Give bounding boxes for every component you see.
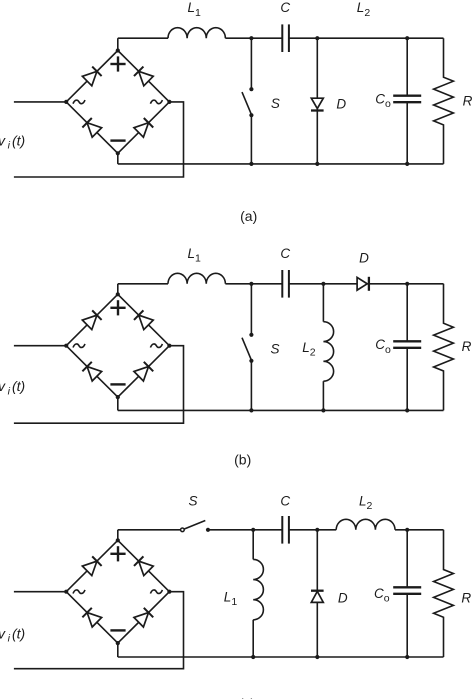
svg-text:C: C (280, 0, 290, 15)
svg-text:(c): (c) (239, 695, 255, 699)
svg-text:D: D (336, 97, 346, 112)
svg-text:R: R (463, 94, 473, 109)
svg-text:S: S (270, 341, 279, 356)
svg-text:(a): (a) (240, 208, 257, 224)
svg-text:S: S (188, 494, 197, 509)
svg-text:R: R (461, 590, 471, 605)
svg-text:S: S (271, 96, 280, 111)
svg-text:C: C (280, 494, 290, 509)
svg-text:D: D (338, 591, 348, 606)
svg-text:C: C (280, 246, 290, 261)
svg-text:(b): (b) (234, 452, 251, 468)
svg-text:R: R (462, 339, 472, 354)
svg-text:D: D (359, 250, 369, 265)
